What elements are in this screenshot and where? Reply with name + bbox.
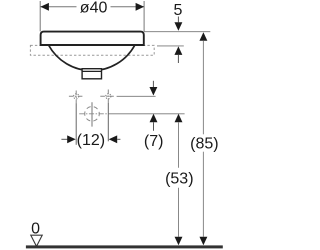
washbasin drain flange line: [82, 70, 101, 72]
svg-text:(12): (12): [77, 132, 105, 149]
washbasin rim: [41, 32, 144, 45]
dimension (53) upper arrow: [175, 114, 183, 123]
dimension (85) line lower segment: [202, 152, 204, 237]
dimension (12) line left tail: [61, 138, 67, 140]
drain hole dashed circle: [85, 107, 100, 122]
svg-text:(7): (7): [144, 133, 164, 150]
dimension (85) upper arrow: [199, 32, 207, 41]
dimension 5 lower arrow line: [177, 55, 179, 63]
drain hole centreline to (53) reference: [109, 113, 185, 115]
dimension ø40 arrow left: [40, 3, 49, 11]
tap hole marker left crosshair: [69, 91, 84, 104]
drain hole horizontal centreline: [79, 113, 108, 115]
dimension ø40 extension line right: [143, 1, 145, 31]
washbasin drain outlet: [82, 69, 101, 79]
washbasin bowl: [49, 45, 135, 71]
tap hole centreline to (7) reference: [117, 95, 156, 97]
dimension 5 upper arrow: [174, 22, 182, 31]
dimension (7) lower arrow line: [153, 122, 155, 131]
datum triangle: [31, 235, 42, 246]
drain hole vertical centreline: [91, 102, 93, 126]
dimension (85) line upper segment: [202, 41, 204, 135]
dimension (85) lower arrow: [199, 237, 207, 246]
ground line: [26, 245, 223, 248]
tap hole marker right extension line: [107, 103, 109, 141]
dimension ø40 line right segment: [111, 6, 145, 8]
dimension 5 lower arrow: [174, 46, 182, 55]
tap hole marker right crosshair: [100, 90, 115, 104]
svg-text:(85): (85): [190, 135, 218, 152]
dimension (53) line lower segment: [178, 188, 180, 237]
dimension ø40 arrow right: [136, 3, 145, 11]
dimension 5 upper arrow line: [177, 17, 179, 23]
washbasin drain white mask: [82, 69, 101, 78]
countertop dashed outline: [30, 45, 154, 55]
dimension (7) upper arrow: [149, 87, 157, 96]
rim top reference line: [144, 31, 211, 33]
svg-text:ø40: ø40: [80, 0, 108, 16]
tap hole marker left extension line: [75, 103, 77, 145]
dimension (7) upper arrow line: [152, 81, 154, 88]
countertop reference line: [157, 45, 184, 47]
svg-text:(53): (53): [165, 170, 193, 187]
dimension (7) lower arrow: [150, 114, 158, 123]
dimension ø40 line left segment: [40, 6, 76, 8]
dimension (12) line right tail: [117, 138, 120, 140]
dimension ø40 extension line left: [39, 1, 41, 31]
dimension (53) line upper segment: [178, 122, 180, 168]
dimension (12) arrow right: [109, 135, 118, 143]
dimension (12) arrow left: [67, 135, 76, 143]
dimension (53) lower arrow: [175, 237, 183, 246]
svg-text:5: 5: [174, 2, 183, 19]
